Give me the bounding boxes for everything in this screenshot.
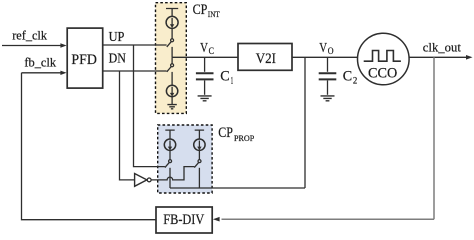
svg-text:O: O (328, 46, 334, 56)
block PFD (67, 28, 103, 88)
node ref_clk arrowhead (60, 43, 66, 47)
wire feedback to FB-DIV (222, 218, 435, 220)
wire node to switch S_DN (171, 57, 173, 64)
svg-text:V2I: V2I (256, 51, 276, 67)
wire right switch to rail (198, 168, 200, 188)
svg-text:UP: UP (109, 29, 125, 44)
svg-text:fb_clk: fb_clk (24, 56, 56, 70)
wire DN drop to inverter (120, 71, 135, 180)
svg-text:C: C (220, 69, 229, 85)
wire I_DN to ground (171, 97, 173, 105)
wire ref_clk input (2, 45, 61, 47)
capacitor C1 (204, 57, 206, 72)
wire DN (103, 70, 167, 72)
svg-text:C: C (343, 69, 352, 85)
switch right CP_PROP (198, 160, 201, 163)
node fb_clk arrowhead (60, 71, 66, 75)
svg-text:DN: DN (109, 50, 126, 65)
wire fb_clk input (22, 72, 62, 74)
wire V2I to CCO (292, 56, 358, 58)
svg-text:CP: CP (193, 2, 208, 18)
svg-text:ref_clk: ref_clk (12, 29, 48, 43)
charge pump CP_INT box (156, 3, 187, 114)
wire inverter output with hop to right switch (151, 167, 194, 180)
svg-text:PFD: PFD (71, 52, 97, 68)
ground C2 (321, 96, 335, 101)
wire left CS to switch (169, 150, 171, 159)
current source I_UP (166, 16, 178, 28)
node FB-DIV input arrowhead (213, 217, 220, 222)
svg-text:clk_out: clk_out (423, 40, 461, 55)
svg-text:CP: CP (218, 125, 233, 141)
wire switch to node VC (171, 47, 173, 57)
wire left switch to rail (169, 168, 171, 188)
ground CP_INT (167, 105, 176, 109)
svg-text:FB-DIV: FB-DIV (163, 212, 204, 228)
block V2I (238, 44, 292, 71)
wire node VC to V2I (172, 56, 238, 58)
wire CP_PROP output rail (170, 187, 305, 189)
wire FB-DIV output to fb_clk (22, 73, 157, 220)
switch left CP_PROP (169, 160, 172, 163)
wire node VO down to CP_PROP output rail (304, 57, 306, 188)
ground C1 (198, 96, 212, 101)
capacitor C2 (327, 57, 329, 72)
supply bar CP_INT (166, 9, 178, 17)
switch S_UP (171, 39, 174, 42)
svg-text:C: C (209, 46, 214, 56)
inverter U1 (135, 174, 147, 187)
current source I_DN (166, 85, 177, 96)
node clk_out arrowhead (466, 55, 473, 60)
svg-text:INT: INT (208, 10, 220, 19)
supply bar right CP_PROP (195, 130, 204, 139)
wire right CS to switch (198, 150, 200, 159)
square wave symbol (364, 51, 401, 62)
oscillator CCO (358, 33, 410, 85)
block FB-DIV (156, 207, 212, 233)
svg-text:V: V (319, 41, 327, 56)
wire UP (103, 44, 167, 46)
svg-text:PROP: PROP (234, 134, 255, 143)
current source left CP_PROP (164, 139, 175, 150)
switch S_DN (171, 64, 174, 67)
svg-text:2: 2 (353, 76, 357, 86)
svg-text:1: 1 (231, 76, 234, 86)
current source right CP_PROP (194, 139, 205, 150)
supply bar left CP_PROP (165, 130, 174, 139)
wire I_UP to switch (171, 28, 173, 39)
wire UP drop to CP_PROP left switch (134, 45, 165, 167)
wire feedback from clk_out down (433, 57, 435, 219)
charge pump CP_PROP box (158, 125, 212, 193)
wire S_DN to I_DN (171, 72, 173, 86)
wire CCO to clk_out (409, 56, 467, 58)
svg-text:CCO: CCO (368, 65, 397, 81)
svg-text:V: V (200, 41, 208, 56)
